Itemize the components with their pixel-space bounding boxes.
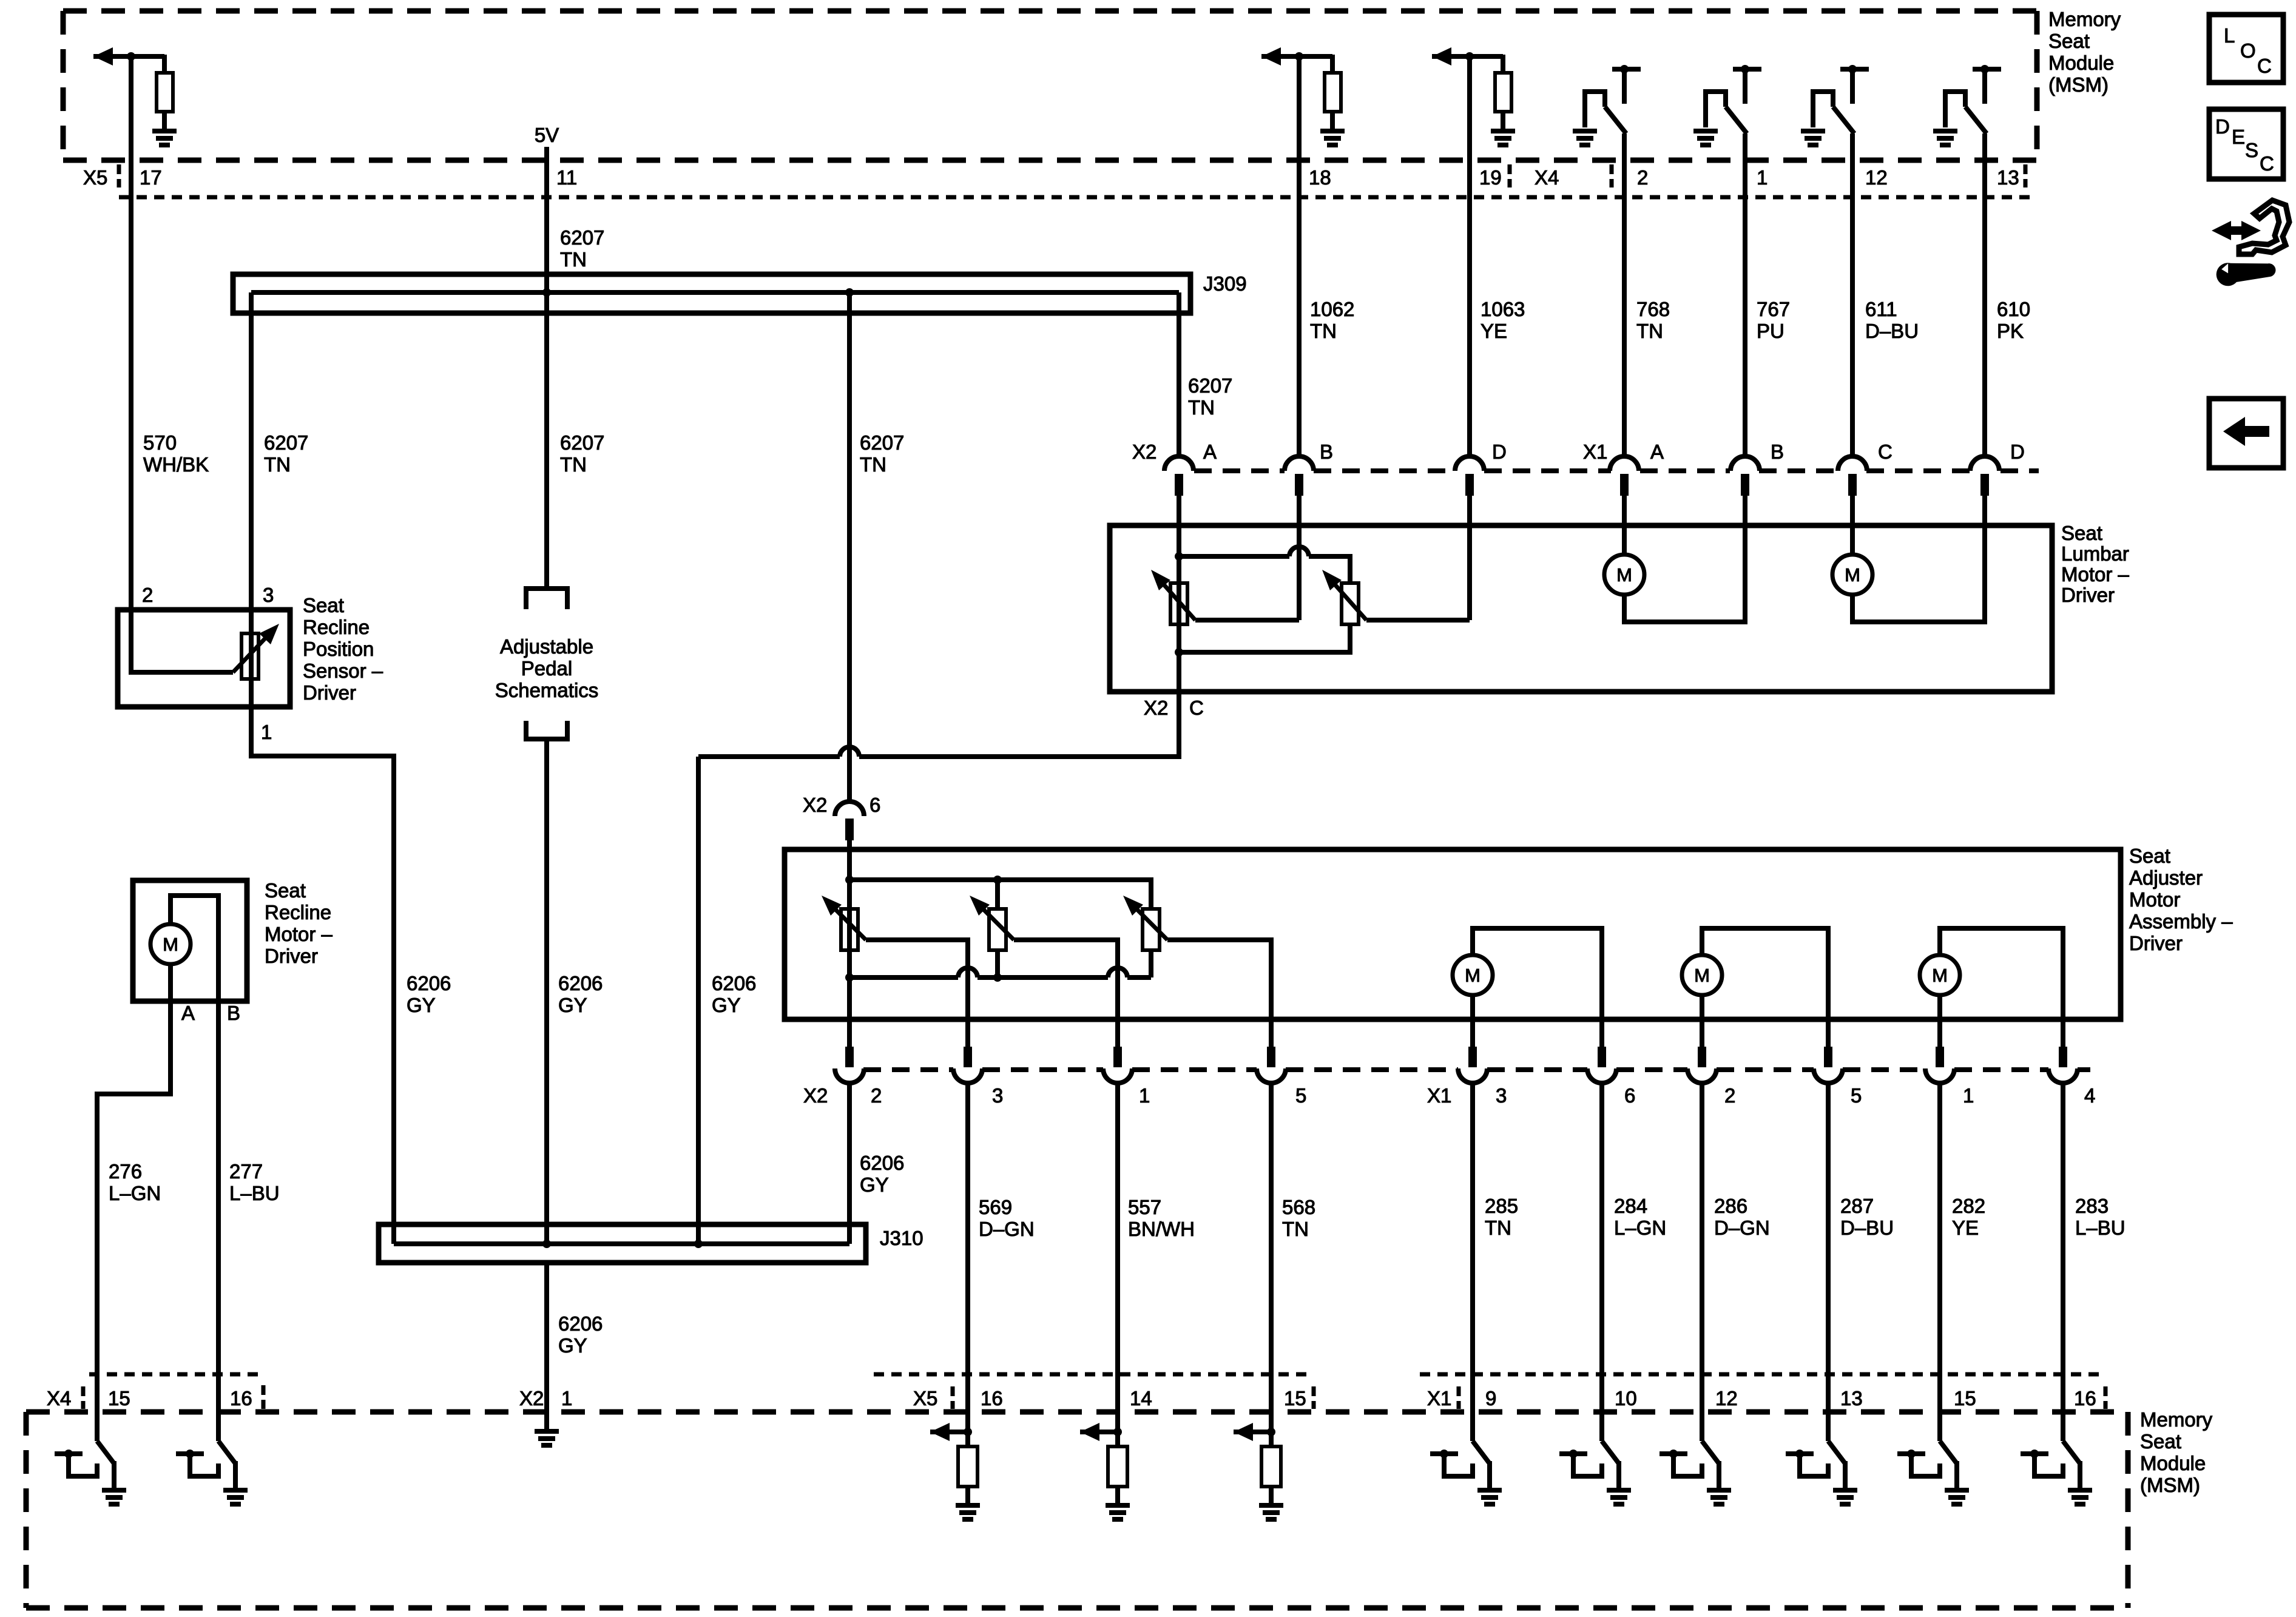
switch X4-12 ground bracket [1813,92,1833,127]
resistor (wire X5-16) [965,1432,970,1447]
svg-text:GY: GY [712,994,741,1016]
switch X1-15 blade [1937,1412,1942,1441]
svg-text:X1: X1 [1583,441,1607,463]
connector X1-C [1838,456,1867,471]
wire 284 L–GN (adjuster to X1-10) [1599,1084,1604,1412]
lumbar motor1 wires [1622,525,1627,555]
Memory Seat Module (MSM) bottom dashed box [26,1409,2128,1415]
svg-text:1: 1 [1757,166,1768,189]
svg-text:C: C [1189,697,1204,719]
connector X2-6 [835,802,864,816]
svg-text:17: 17 [140,166,162,189]
adjuster wire 2 inside box [847,849,852,1049]
off-page arrow (wire X5-18) [1261,54,1332,59]
switch X1-12 contact bar [1660,1451,1687,1456]
switch X4-12 blade [1833,107,1854,133]
wire D inside box [1467,525,1472,620]
separator after X4-16 [262,1385,266,1409]
adjuster motor3 wires [1940,928,2063,1049]
svg-text:L: L [2224,24,2235,47]
switch X1-13 contact bar [1786,1451,1814,1456]
svg-text:Seat: Seat [303,594,344,616]
svg-text:B: B [1771,441,1784,463]
svg-text:J309: J309 [1203,272,1247,295]
svg-text:B: B [1320,441,1333,463]
switch X4-1 blade [1726,107,1747,133]
svg-text:6: 6 [1624,1084,1635,1107]
connector X2-1 (adjuster) [1113,1047,1122,1067]
junction dot (wire X5-19) [1465,52,1474,61]
junction dot lumbar pot bottom [1175,648,1183,657]
wire S hop over X2-6 wire [840,747,859,757]
adjuster pot2 wiper out (X2-1) [1014,940,1118,1049]
svg-text:6: 6 [869,794,880,816]
svg-text:Schematics: Schematics [495,679,599,701]
resistor to ground (wire X5-19) [1501,55,1505,73]
ground (switch X1-10) [1607,1488,1631,1493]
off-page arrow (wire X5-15) [1234,1430,1271,1434]
wire 6207 TN (J309 down to pedal bracket) [544,292,549,589]
svg-text:6206: 6206 [712,972,756,994]
lumbar pot2 wiper to wire D [1366,618,1470,623]
wire 286 D–GN (adjuster to X1-12) [1700,1084,1704,1412]
off-page arrow (wire X5-19) [1432,54,1503,59]
ground (X2-1) [535,1429,559,1434]
ground (switch X4-15) [102,1488,126,1493]
junction dot lumbar pot top [1175,552,1183,561]
connector X2-3 (adjuster) [964,1047,972,1067]
svg-text:1063: 1063 [1481,298,1525,320]
svg-text:X2: X2 [803,1084,828,1107]
svg-text:X4: X4 [47,1387,71,1409]
separator after 13 [2024,164,2028,187]
switch X4-15 contact bar [55,1451,83,1456]
svg-text:5V: 5V [535,124,559,146]
junction dot adjuster return A [845,973,854,982]
svg-text:L–BU: L–BU [2075,1217,2125,1239]
svg-text:X5: X5 [83,166,107,189]
svg-text:D–GN: D–GN [1714,1217,1770,1239]
motor M (lumbar up/down) [1832,555,1872,595]
lumbar pot supply link (hops wire B) [1179,554,1289,559]
service information icon (hand with arrows and wrench) [2212,221,2261,240]
switch X4-2 ground bracket [1585,92,1605,127]
svg-text:3: 3 [992,1084,1003,1107]
ground (switch X1-13) [1833,1488,1857,1493]
svg-text:TN: TN [1636,320,1663,342]
adjuster pot1 wiper out (X2-3) [866,940,968,1049]
junction dot adjuster return B [993,973,1002,982]
switch X1-12 blade [1700,1412,1704,1441]
svg-text:X2: X2 [803,794,827,816]
svg-text:Seat: Seat [265,879,306,902]
svg-text:276: 276 [109,1160,142,1183]
svg-text:D: D [2215,115,2230,138]
wire 277 L-BU (recline B to X4-16) [216,1001,221,1441]
svg-text:Driver: Driver [2061,584,2115,606]
splice pack J310 outer [379,1224,866,1263]
connector pin row dotted line (top) [119,195,2030,200]
svg-text:Seat: Seat [2129,845,2170,867]
svg-text:C: C [2257,55,2272,77]
junction dot (wire X5-16) [964,1428,972,1436]
wire 569 D-GN (X2-3 to X5-16) [965,1084,970,1432]
wire X2-B pin to lumbar box [1297,496,1302,525]
recline motor internal loop [171,896,218,1001]
connector X2-5 (adjuster) [1267,1047,1275,1067]
wire 6207 TN (J309 to X2-A) [1177,292,1181,456]
switch X1-13 blade [1826,1412,1831,1441]
off-page bracket from Adjustable Pedal Schematics (bottom) [526,721,567,739]
resistor (wire X5-14) [1115,1432,1120,1447]
resistor to ground (wire X5-17) [162,55,167,73]
svg-text:O: O [2240,39,2256,62]
svg-text:GY: GY [407,994,436,1016]
Seat Adjuster Motor Assembly - Driver box [785,849,2121,1019]
svg-text:277: 277 [229,1160,263,1183]
svg-text:1: 1 [1963,1084,1974,1107]
off-page arrow (wire X5-17) [93,54,164,59]
svg-text:6207: 6207 [560,226,604,249]
connector pin row dotted line (X5 bottom) [874,1372,1314,1377]
junction dot J309/X2-6 branch [845,288,854,297]
ground (switch X1-12) [1707,1488,1731,1493]
adjuster return link (hops wipers) [849,975,958,980]
motor M (seat recline) [150,924,191,964]
switch X4-1 ground bracket [1706,92,1726,127]
wire 6207 TN from 5V pin 11 to J309 [544,147,549,292]
svg-text:PU: PU [1757,320,1784,342]
svg-text:Seat: Seat [2048,30,2090,52]
svg-text:282: 282 [1952,1195,1985,1217]
switch X1-10 blade [1599,1412,1604,1441]
svg-text:Memory: Memory [2048,8,2121,30]
separator after X1-16 [2104,1386,2108,1409]
svg-text:GY: GY [558,994,587,1016]
position sensor potentiometer (adjuster 3) [1143,909,1160,950]
svg-text:570: 570 [143,431,177,454]
switch X4-12 contact bar [1840,67,1869,72]
LOC icon box [2209,15,2283,83]
svg-text:6206: 6206 [860,1152,904,1174]
switch X1-16 contact bar [2021,1451,2048,1456]
svg-text:Module: Module [2048,52,2114,74]
Seat Lumbar Motor - Driver box [1110,525,2052,692]
svg-text:285: 285 [1485,1195,1518,1217]
svg-text:D–GN: D–GN [979,1218,1035,1240]
svg-text:B: B [227,1002,240,1024]
svg-text:D: D [2010,441,2025,463]
junction dot adjuster supply B [993,876,1002,884]
adjuster motor2 wires [1702,928,1828,1049]
ground (wire X5-14) [1106,1503,1130,1508]
svg-text:A: A [1650,441,1664,463]
svg-text:X2: X2 [1144,697,1168,719]
svg-text:A: A [1203,441,1217,463]
svg-text:2: 2 [871,1084,882,1107]
switch X1-9 contact bar [1430,1451,1458,1456]
svg-text:PK: PK [1997,320,2024,342]
svg-text:WH/BK: WH/BK [143,453,209,476]
svg-text:A: A [181,1002,195,1024]
svg-text:C: C [2260,152,2274,175]
resistor to ground (wire X5-18) [1330,55,1335,73]
off-page bracket to Adjustable Pedal Schematics (top) [526,589,567,609]
svg-text:611: 611 [1865,298,1897,320]
svg-text:TN: TN [1485,1217,1511,1239]
switch X4-2 contact bar [1612,67,1641,72]
recline motor wire A inside [168,964,173,1001]
connector X1-5 (adjuster) [1824,1047,1832,1067]
motor M (adjuster rear height) [1682,955,1722,995]
svg-text:Lumbar: Lumbar [2061,542,2129,565]
connector row dashed line (lumbar) [1194,468,1285,473]
switch X1-16 blade [2061,1412,2065,1441]
svg-text:18: 18 [1309,166,1331,189]
connector X1-4 (adjuster) [2059,1047,2067,1067]
splice pack J309 outer [233,274,1190,313]
svg-text:GY: GY [860,1173,889,1196]
svg-text:GY: GY [558,1334,587,1357]
svg-text:M: M [1465,965,1481,986]
svg-text:Assembly –: Assembly – [2129,910,2233,933]
switch X4-13 blade [1965,107,1987,133]
svg-text:15: 15 [1284,1387,1306,1409]
svg-text:M: M [1845,564,1860,586]
wire 283 L–BU (adjuster to X1-16) [2061,1084,2065,1412]
svg-text:15: 15 [108,1387,130,1409]
wire 287 D–BU (adjuster to X1-13) [1826,1084,1831,1412]
svg-text:14: 14 [1130,1387,1152,1409]
svg-text:L–BU: L–BU [229,1182,280,1204]
svg-text:X5: X5 [913,1387,937,1409]
switch X4-1 contact bar [1733,67,1761,72]
wire X1-A pin to lumbar box [1622,496,1627,525]
separator after 19 [1508,164,1512,187]
wire 6206 GY (pedal bracket to J310) [544,739,549,1244]
svg-text:YE: YE [1481,320,1507,342]
svg-text:16: 16 [981,1387,1003,1409]
off-page arrow (wire X5-16) [930,1430,968,1434]
connector X1-D [1970,456,1999,471]
wire X1-D pin to lumbar box [1982,496,1987,525]
wire 6206 GY (sensor pin 1 to J310) [251,707,394,1244]
svg-text:Recline: Recline [303,616,370,638]
svg-text:287: 287 [1840,1195,1874,1217]
ground (wire X5-16) [956,1503,980,1508]
svg-text:284: 284 [1614,1195,1647,1217]
svg-text:Motor –: Motor – [265,923,333,945]
svg-text:557: 557 [1128,1196,1161,1218]
wire 6206 GY (X2-2 to J310) [847,1084,852,1244]
svg-text:BN/WH: BN/WH [1128,1218,1195,1240]
ground (wire X5-19 resistor) [1491,129,1515,133]
svg-text:768: 768 [1636,298,1670,320]
svg-text:9: 9 [1485,1387,1496,1409]
Memory Seat Module (MSM) top dashed box [63,8,2037,14]
motor M (adjuster fore/aft) [1920,955,1960,995]
back arrow icon box [2209,399,2283,468]
svg-text:X2: X2 [1132,441,1156,463]
separator X4 (bottom) [81,1386,86,1409]
connector pin row dotted line (X1 bottom) [1420,1372,2105,1377]
svg-text:TN: TN [560,248,587,271]
separator X1 (bottom) [1457,1386,1461,1409]
svg-text:Driver: Driver [303,681,356,704]
svg-text:Pedal: Pedal [521,657,572,680]
junction dot J310/X2-C branch [694,1240,703,1248]
svg-text:3: 3 [263,584,274,606]
svg-text:Driver: Driver [2129,932,2183,954]
junction dot J310/pedal branch [542,1240,551,1248]
svg-text:M: M [1616,564,1632,586]
separator X5 (bottom) [951,1386,955,1409]
svg-text:TN: TN [1188,396,1215,419]
splice pack J309 inner bus [251,290,1179,295]
Seat Recline Position Sensor box [118,610,290,707]
connector X2-2 (adjuster) [845,1047,854,1067]
wire X1-B pin to lumbar box [1743,496,1747,525]
junction dot adjuster supply A [845,876,854,884]
switch X4-15 blade [95,1412,100,1441]
svg-text:4: 4 [2084,1084,2095,1107]
switch X1-15 contact bar [1897,1451,1925,1456]
svg-text:TN: TN [1282,1218,1309,1240]
wire X1-C pin to lumbar box [1850,496,1855,525]
junction dot (wire X5-18) [1295,52,1303,61]
wire 285 TN (adjuster to X1-9) [1470,1084,1475,1412]
connector X1-6 (adjuster) [1598,1047,1606,1067]
ground (wire X5-18 resistor) [1320,129,1345,133]
svg-text:19: 19 [1479,166,1502,189]
svg-text:L–GN: L–GN [109,1182,161,1204]
svg-text:767: 767 [1757,298,1790,320]
wire 276 L-GN (recline A to X4-15) [97,1001,171,1441]
junction dot (wire X5-14) [1113,1428,1122,1436]
svg-text:1: 1 [561,1387,572,1409]
wire 610 PK (X4-13 to X1-D) [1982,133,1987,456]
svg-text:610: 610 [1997,298,2030,320]
wire 1062 TN (pin 18 to X2-B) [1297,56,1302,456]
svg-text:12: 12 [1865,166,1888,189]
connector X1-3 (adjuster) [1468,1047,1477,1067]
svg-text:6206: 6206 [558,1312,603,1335]
svg-text:M: M [1932,965,1948,986]
svg-text:283: 283 [2075,1195,2109,1217]
connector X1-2 (adjuster) [1698,1047,1706,1067]
svg-text:Position: Position [303,638,374,660]
wire 282 YE (adjuster to X1-15) [1937,1084,1942,1412]
wire X2-A pin to lumbar box [1177,496,1181,525]
wire 768 TN (X4-2 to X1-A) [1622,133,1627,456]
svg-text:10: 10 [1615,1387,1637,1409]
lumbar motor2 wires [1850,525,1855,555]
svg-text:Recline: Recline [265,901,331,923]
position sensor potentiometer (adjuster 2) [989,909,1006,950]
svg-text:286: 286 [1714,1195,1747,1217]
connector X1-A [1610,456,1639,471]
svg-text:(MSM): (MSM) [2140,1474,2200,1496]
separator X5|17 [117,164,121,187]
svg-text:TN: TN [560,453,587,476]
svg-text:C: C [1878,441,1893,463]
svg-text:2: 2 [142,584,153,606]
sensor element wire (pin 3 to pin 1) [249,610,254,707]
wire 6206 GY (J310 to X2-1 ground) [544,1263,549,1429]
switch X4-13 contact bar [1973,67,2001,72]
motor M (lumbar fore/aft) [1604,555,1644,595]
adjuster pot3 wiper out (X2-5) [1167,940,1271,1049]
wire 6207 TN (J309 to sensor pin 3) [249,292,254,610]
svg-text:Module: Module [2140,1452,2206,1474]
svg-text:Adjuster: Adjuster [2129,866,2203,889]
svg-text:Memory: Memory [2140,1408,2213,1431]
svg-text:X2: X2 [519,1387,544,1409]
svg-text:12: 12 [1715,1387,1738,1409]
ground (switch X1-16) [2068,1488,2092,1493]
svg-text:TN: TN [1310,320,1337,342]
adjuster motor1 wires [1473,928,1602,1049]
svg-text:M: M [163,934,178,955]
svg-text:Motor –: Motor – [2061,563,2130,586]
svg-text:S: S [2245,139,2258,161]
position sensor potentiometer (lumbar 2) [1342,583,1359,624]
wire 611 D-BU (X4-12 to X1-C) [1850,133,1855,456]
connector X1-B [1730,456,1760,471]
svg-text:D–BU: D–BU [1840,1217,1894,1239]
ground (switch X4-1) [1693,129,1718,133]
junction dot J309/5V [542,288,551,297]
svg-text:6207: 6207 [860,431,904,454]
svg-text:(MSM): (MSM) [2048,73,2109,96]
wire X2-6 pin to adjuster box [847,840,852,849]
svg-text:L–GN: L–GN [1614,1217,1666,1239]
switch X4-16 contact bar [176,1451,204,1456]
svg-text:Motor: Motor [2129,888,2180,911]
svg-text:TN: TN [860,453,886,476]
switch X4-13 ground bracket [1945,92,1965,127]
svg-text:Seat: Seat [2140,1430,2181,1453]
svg-text:6207: 6207 [264,431,308,454]
svg-text:J310: J310 [880,1227,923,1249]
ground (switch X1-9) [1477,1488,1502,1493]
connector pin row dotted line (X4 bottom) [89,1372,258,1377]
adjuster supply link [849,880,1151,909]
position sensor potentiometer (lumbar 1) [1170,583,1187,624]
svg-text:X1: X1 [1427,1084,1451,1107]
ground (switch X4-13) [1933,129,1957,133]
svg-text:X1: X1 [1427,1387,1451,1409]
ground (wire X5-17 resistor) [152,129,177,133]
Seat Recline Motor - Driver box [133,880,247,1001]
svg-text:2: 2 [1724,1084,1735,1107]
junction dot (wire X5-15) [1267,1428,1275,1436]
connector X2-D [1455,456,1484,471]
svg-text:1: 1 [1139,1084,1150,1107]
separator after X5-15 [1312,1386,1316,1409]
svg-text:5: 5 [1295,1084,1306,1107]
svg-text:13: 13 [1997,166,2019,189]
ground (wire X5-15) [1259,1503,1283,1508]
switch X1-9 blade [1470,1412,1475,1441]
svg-text:6206: 6206 [558,972,603,994]
svg-text:6206: 6206 [407,972,451,994]
connector X1-1 (adjuster) [1936,1047,1944,1067]
DESC icon box [2209,109,2283,179]
splice pack J310 inner bus [394,1241,849,1246]
svg-text:Driver: Driver [265,945,318,967]
svg-text:Seat: Seat [2061,522,2102,544]
